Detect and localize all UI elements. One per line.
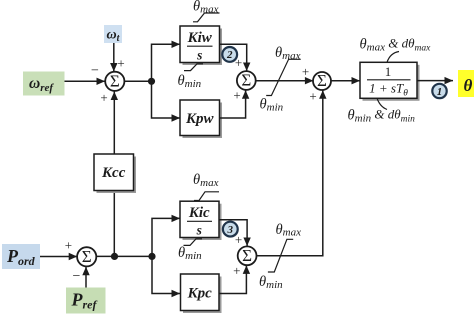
leader line to lower lag label bbox=[377, 98, 387, 109]
svg-text:+: + bbox=[233, 263, 240, 278]
wire node N3 down to Kpc input bbox=[152, 256, 180, 297]
lag block 1/(1+sT_theta) bbox=[360, 62, 420, 101]
summing junction S4 bbox=[77, 247, 96, 266]
svg-text:Σ: Σ bbox=[317, 71, 327, 90]
wire lag block output to theta tag bbox=[417, 77, 453, 84]
svg-text:+: + bbox=[309, 89, 316, 104]
svg-text:θ: θ bbox=[464, 76, 473, 95]
wire S4 output to node N2 and node N3 bbox=[96, 255, 152, 257]
svg-text:−: − bbox=[73, 269, 81, 284]
summing junction S2 bbox=[237, 71, 256, 90]
node N2 junction dot bbox=[111, 253, 118, 260]
limiter mark on S2-S3 wire bbox=[266, 59, 301, 95]
svg-text:+: + bbox=[235, 232, 242, 247]
block Kic/s integrator bbox=[180, 201, 222, 240]
svg-text:−: − bbox=[91, 64, 99, 79]
wire node N2 up to Kcc bbox=[113, 191, 115, 257]
svg-text:Σ: Σ bbox=[110, 72, 120, 91]
input tag omega_ref bbox=[23, 72, 65, 96]
input tag P_ref bbox=[66, 288, 106, 314]
block Kcc bbox=[94, 154, 136, 193]
svg-text:1: 1 bbox=[385, 64, 392, 79]
wire S3 output to lag block bbox=[331, 77, 360, 84]
svg-text:Σ: Σ bbox=[82, 247, 92, 266]
svg-text:+: + bbox=[233, 88, 240, 103]
svg-text:3: 3 bbox=[227, 224, 234, 236]
limiter mark on S5 output wire bbox=[268, 239, 293, 272]
svg-text:s: s bbox=[196, 223, 202, 238]
block Kpw bbox=[180, 100, 222, 138]
limit mark below Kic bbox=[184, 239, 203, 246]
svg-text:Σ: Σ bbox=[241, 71, 251, 90]
svg-text:Kcc: Kcc bbox=[101, 165, 126, 181]
node N1 junction dot bbox=[148, 78, 155, 85]
wire omega_t to summing junction S1 bbox=[110, 43, 117, 72]
block Kpc bbox=[181, 274, 222, 313]
block Kiw/s integrator bbox=[180, 26, 222, 65]
svg-text:Σ: Σ bbox=[242, 246, 252, 265]
svg-text:Kpw: Kpw bbox=[185, 111, 215, 127]
wire S2 output to S3 bbox=[256, 77, 314, 84]
wire S1 output to node N1 bbox=[124, 80, 151, 82]
state number tag 3 bbox=[223, 222, 239, 238]
wire Kpc output to S5 bottom bbox=[219, 265, 250, 293]
wire S5 output up to S3 bottom bbox=[257, 90, 327, 255]
summing junction S5 bbox=[238, 246, 257, 265]
svg-text:+: + bbox=[100, 90, 107, 105]
svg-text:s: s bbox=[196, 48, 202, 63]
wire Kpw output to S2 bottom bbox=[220, 90, 250, 118]
svg-text:+: + bbox=[65, 238, 72, 253]
node N3 junction dot bbox=[148, 253, 155, 260]
svg-text:2: 2 bbox=[226, 49, 233, 61]
limit mark above Kic bbox=[194, 192, 219, 201]
wire node N3 up to Kic input bbox=[152, 215, 180, 257]
input tag omega_t bbox=[104, 25, 122, 44]
leader line to upper lag label bbox=[387, 52, 399, 63]
wire node N1 up to Kiw input bbox=[152, 41, 181, 82]
wire node N1 down to Kpw input bbox=[152, 81, 181, 121]
state number tag 2 bbox=[222, 47, 238, 63]
svg-text:+: + bbox=[302, 64, 309, 79]
wire Kic output to S5 top bbox=[219, 220, 251, 246]
limit mark above Kiw bbox=[193, 13, 220, 22]
state number tag 1 bbox=[432, 84, 447, 99]
svg-text:1: 1 bbox=[437, 86, 443, 98]
svg-text:Kic: Kic bbox=[188, 205, 210, 221]
wire P_ord to summing junction S4 bbox=[40, 253, 77, 260]
wire Kiw output to S2 top bbox=[220, 44, 251, 71]
svg-text:+: + bbox=[117, 56, 124, 71]
summing junction S3 bbox=[313, 71, 331, 90]
input tag P_ord bbox=[2, 244, 40, 269]
summing junction S1 bbox=[105, 72, 124, 91]
svg-text:Kpc: Kpc bbox=[187, 286, 213, 302]
svg-text:Kiw: Kiw bbox=[187, 30, 213, 46]
wire omega_ref to summing junction S1 bbox=[65, 78, 106, 85]
output tag theta bbox=[458, 70, 474, 97]
wire Kcc output up to S1 bottom bbox=[111, 92, 118, 155]
svg-text:+: + bbox=[235, 55, 242, 70]
wire P_ref to S4 bottom bbox=[82, 267, 89, 288]
limit mark below Kiw bbox=[184, 64, 203, 71]
